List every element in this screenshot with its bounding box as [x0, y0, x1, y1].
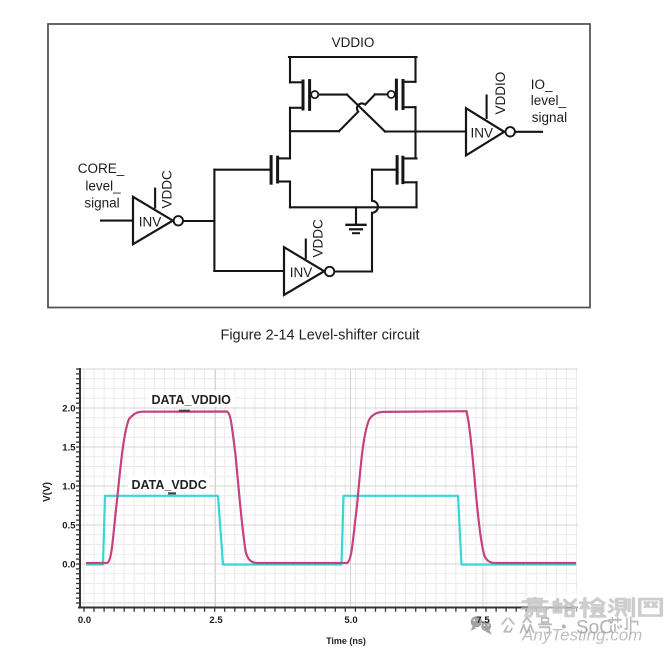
- svg-text:0.0: 0.0: [78, 615, 91, 626]
- wire INV1 output node vertical: [213, 170, 215, 271]
- wire node B vertical (right drain): [414, 107, 416, 158]
- transistor MP2 (right PMOS): [375, 80, 416, 109]
- svg-text:1.0: 1.0: [62, 482, 75, 493]
- schematic frame box: [48, 24, 590, 308]
- svg-text:1.5: 1.5: [62, 443, 76, 454]
- wire MN2 source drop: [415, 182, 417, 207]
- big gray chinese watermark (drawn strokes): [523, 598, 662, 617]
- char zhong: [521, 618, 534, 633]
- svg-text:2.5: 2.5: [209, 615, 223, 626]
- wire MN1 source drop: [289, 182, 291, 208]
- wire INV2 output to MN2 gate (hop over ground rail): [372, 170, 378, 272]
- node CORE_level_signal label: [78, 161, 125, 211]
- axes: [78, 368, 578, 608]
- transistor MN2 (right NMOS): [397, 157, 416, 184]
- svg-text:5.0: 5.0: [344, 615, 357, 626]
- minor grid: [80, 369, 578, 607]
- wire MP1 source drop: [289, 57, 291, 82]
- VDDIO rail: [289, 56, 417, 58]
- svg-text:level_: level_: [85, 178, 121, 193]
- watermark: [471, 590, 672, 651]
- svg-text:VDDC: VDDC: [160, 170, 175, 209]
- char pian: [625, 617, 638, 633]
- legend DATA_VDDC: [128, 476, 209, 495]
- wire INV1 output: [183, 220, 214, 222]
- wechat icon: [471, 616, 492, 634]
- svg-text:0.5: 0.5: [62, 521, 76, 532]
- char yu: [554, 599, 575, 616]
- svg-text:2.0: 2.0: [62, 404, 75, 415]
- wire INV2 input: [214, 270, 284, 272]
- svg-text:7.5: 7.5: [476, 615, 490, 626]
- trace DATA_VDDC (cyan): [86, 496, 576, 565]
- svg-text:DATA_VDDIO: DATA_VDDIO: [152, 393, 232, 407]
- svg-text:level_: level_: [531, 93, 567, 108]
- char ce: [610, 598, 634, 616]
- x tick labels: [78, 615, 490, 626]
- wire INV2 output: [334, 270, 372, 272]
- wire ground rail: [290, 206, 417, 208]
- svg-text:VDDC: VDDC: [311, 219, 326, 258]
- char jian: [581, 598, 605, 617]
- svg-text:INV: INV: [471, 125, 494, 140]
- separator dot: [562, 625, 566, 629]
- wire INV3 input: [416, 130, 467, 132]
- wire INV1 input: [101, 220, 133, 222]
- char gong: [502, 618, 514, 631]
- wire INV3 output: [516, 131, 543, 133]
- svg-text:INV: INV: [290, 265, 313, 280]
- char jia: [523, 598, 548, 616]
- ground: [347, 207, 366, 233]
- svg-text:AnyTesting.com: AnyTesting.com: [521, 626, 642, 645]
- transistor MP1 (left PMOS): [290, 81, 347, 110]
- svg-text:V(V): V(V): [42, 482, 53, 502]
- wire cross-couple diagonal from MP1 gate: [347, 95, 385, 132]
- svg-text:CORE_: CORE_: [78, 161, 125, 176]
- char wang: [640, 599, 662, 615]
- op-amp U1 (INV core-level inverter): [133, 188, 183, 245]
- ticks: [76, 369, 577, 612]
- node IO_level_signal label: [531, 77, 567, 125]
- op-amp U3 (INV output inverter): [466, 95, 515, 156]
- svg-text:VDDIO: VDDIO: [493, 72, 508, 115]
- svg-text:0.0: 0.0: [62, 560, 75, 571]
- svg-text:Time (ns): Time (ns): [326, 636, 366, 646]
- svg-text:INV: INV: [139, 214, 162, 229]
- svg-text:signal: signal: [84, 195, 119, 210]
- wire node A vertical (left drain): [289, 108, 291, 159]
- white fade behind watermark: [528, 590, 672, 651]
- y tick labels: [62, 404, 76, 571]
- small gray line: gongzhonghao . SoC chip: [502, 617, 637, 633]
- major grid: [80, 369, 578, 607]
- svg-text:Figure 2-14 Level-shifter circ: Figure 2-14 Level-shifter circuit: [220, 328, 419, 344]
- wire MN1 gate: [214, 169, 271, 171]
- svg-text:IO_: IO_: [531, 77, 553, 92]
- wire output node horizontal: [385, 130, 466, 132]
- trace DATA_VDDIO (magenta): [86, 411, 576, 563]
- wire MN2 gate: [372, 169, 397, 171]
- wire node A horizontal: [290, 130, 339, 132]
- legend DATA_VDDIO: [148, 391, 235, 412]
- wire MP2 source drop: [414, 57, 416, 82]
- op-amp U2 (INV bottom inverter): [284, 239, 334, 296]
- transistor MN1 (left NMOS): [271, 157, 290, 184]
- svg-text:VDDIO: VDDIO: [332, 35, 375, 50]
- svg-text:signal: signal: [532, 110, 567, 125]
- char hao: [539, 618, 552, 633]
- wire cross-couple diagonal to MP2 gate (with hop): [339, 94, 375, 131]
- svg-text:DATA_VDDC: DATA_VDDC: [132, 478, 207, 492]
- char xin: [609, 618, 621, 633]
